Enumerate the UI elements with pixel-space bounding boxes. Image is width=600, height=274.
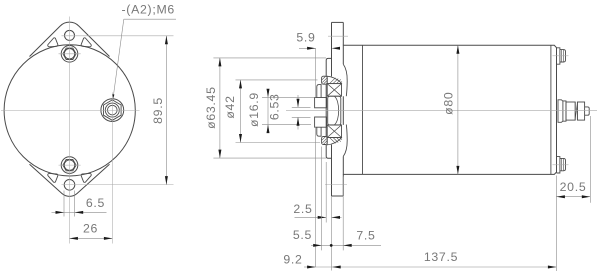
svg-text:9.2: 9.2 [283, 253, 302, 267]
motor body outline side view [343, 45, 556, 174]
dimension 89.5 top arrow [165, 36, 168, 45]
o16.9 extension ticks [262, 96, 314, 98]
top through-bolt inner circle [64, 49, 74, 59]
bottom bolt horizontal centerline tick [59, 164, 81, 166]
dimension 6.5 line and tails [52, 211, 65, 213]
bottom ear mounting hole [64, 180, 75, 191]
bearing cover top [317, 85, 322, 98]
dimension o42 bottom arrow [239, 134, 242, 143]
o63.45 extension lines [213, 57, 326, 59]
dimension o80 top arrow [456, 45, 459, 54]
dimension o80 line [457, 45, 459, 174]
svg-text:89.5: 89.5 [151, 97, 165, 124]
shared endpoint dot 5.5/7.5 [330, 244, 333, 247]
bottom ear left teardrop cutout [48, 173, 58, 182]
dimension 7.5 right arrow [343, 244, 352, 247]
svg-text:2.5: 2.5 [293, 202, 312, 216]
dimension 5.5/7.5 line [311, 244, 322, 246]
spring washer hatched wedge top [327, 76, 341, 83]
dimension 6.5 extension lines [63, 191, 65, 217]
flange bottom ear outline [30, 164, 110, 196]
svg-text:ø42: ø42 [223, 95, 237, 118]
leader arrowhead [113, 94, 115, 98]
svg-text:6.53: 6.53 [268, 93, 282, 120]
hub between bearings [328, 96, 341, 125]
body end cap joint line [550, 45, 552, 174]
dimension 20.5 line [556, 196, 590, 198]
terminal A2 inner circle [108, 105, 118, 115]
top through-bolt outer circle [61, 46, 78, 63]
dimension o42 line [240, 80, 242, 143]
leader underline for label [124, 18, 176, 20]
bottom stud centerline [553, 164, 569, 166]
spring washer hatched wedge bottom [327, 138, 341, 145]
dimension o63.45 bottom arrow [218, 150, 221, 159]
svg-text:7.5: 7.5 [356, 229, 375, 243]
o42 extension lines [236, 79, 318, 81]
flange bottom ear side profile [332, 195, 344, 197]
ear hole centerline tick top [328, 35, 348, 37]
flange right face line lower [331, 145, 333, 196]
top stud knurl lines [562, 50, 564, 62]
bottom stud cap [560, 158, 566, 170]
terminal A2 hex nut [104, 100, 122, 120]
terminal A2 middle circle [105, 103, 119, 117]
top bearing X diagonals [327, 84, 341, 97]
front view vertical centerline [69, 17, 71, 244]
flange top ear outline [30, 22, 110, 56]
bottom stud knurl lines [562, 158, 564, 170]
dimension 6.5 left arrow [56, 211, 65, 214]
coupling dome curve [335, 96, 339, 124]
dimension 137.5 left arrow [332, 266, 341, 269]
middle terminal nut 1 [566, 102, 575, 120]
dimension 2.5 left arrow [318, 216, 327, 219]
top stud base [557, 48, 560, 64]
middle terminal stud end [585, 107, 590, 115]
bottom hole centerline / extension for 89.5 [62, 184, 174, 186]
6.53 extension ticks [292, 106, 311, 108]
bottom through-bolt outer circle [61, 157, 78, 174]
terminal A2 vertical centerline / extension for 26 [111, 93, 113, 244]
top stud cap [560, 50, 566, 62]
extension line x=331.5 below flange [331, 196, 333, 271]
svg-text:6.5: 6.5 [86, 196, 105, 210]
middle terminal nut 2 [577, 102, 584, 120]
extension line end cap face x=556.4 [555, 176, 557, 272]
top ear right teardrop cutout [81, 38, 91, 47]
dimension 6.5 right arrow [75, 211, 84, 214]
top bolt horizontal centerline tick [59, 53, 81, 55]
top hole centerline / extension for 89.5 [62, 35, 174, 37]
dimension o16.9 top arrow and tail [267, 89, 269, 131]
terminal A2 outer circle [101, 99, 124, 122]
svg-text:137.5: 137.5 [424, 250, 458, 264]
ear hole centerline tick bottom [325, 184, 347, 186]
svg-text:5.9: 5.9 [296, 31, 315, 45]
dimension 5.9 right arrow [332, 47, 341, 50]
front view horizontal centerline [1, 109, 140, 111]
svg-text:ø16.9: ø16.9 [247, 92, 261, 127]
bottom stud base [557, 157, 560, 173]
dimension 2.5 right arrow [332, 216, 341, 219]
top ear left teardrop cutout [48, 38, 58, 47]
flange top ear side profile [332, 21, 344, 23]
svg-text:20.5: 20.5 [560, 180, 587, 194]
dimension 26 right arrow [104, 237, 113, 240]
leader line to terminal [113, 19, 124, 96]
svg-text:5.5: 5.5 [293, 228, 312, 242]
flange section hatched block bottom [322, 137, 328, 145]
dimension 89.5 bottom arrow [165, 176, 168, 185]
dimension 137.5 right arrow [548, 266, 557, 269]
extension line x=315.6 (tooth face) [315, 48, 317, 97]
dimension 89.5 line [165, 36, 167, 185]
coupling top tooth [315, 98, 327, 108]
dimension 6.53 top arrow and tail [297, 95, 299, 107]
dimension 5.9 left arrow [307, 47, 316, 50]
bottom bearing X diagonals [327, 125, 341, 138]
svg-text:26: 26 [83, 222, 98, 236]
bottom through-bolt hex [63, 159, 76, 170]
extension line flange left face x=326.2 [325, 162, 327, 223]
bottom bearing section square [327, 125, 341, 138]
dimension 5.9 line left part [299, 47, 316, 49]
end bell dome curve top [343, 64, 347, 96]
flange plate left face [326, 58, 331, 158]
extension line x=321.7 [321, 147, 323, 251]
dimension 9.2/137.5 line [304, 266, 316, 268]
dimension 5.5 left arrow [313, 244, 322, 247]
svg-text:-(A2);M6: -(A2);M6 [122, 3, 175, 17]
middle terminal step [563, 101, 566, 121]
dimension o42 top arrow [239, 80, 242, 89]
dimension o63.45 line [219, 58, 221, 158]
bottom ear right teardrop cutout [81, 173, 91, 182]
dimension 2.5 line [295, 216, 327, 218]
bearing cover bottom [317, 127, 322, 136]
end bell dome curve bottom [343, 125, 347, 157]
flange section hatched block top [322, 76, 328, 84]
middle terminal washer lines [575, 102, 577, 120]
top stud centerline [553, 55, 569, 57]
motor body circle front view [4, 45, 135, 176]
middle terminal base collar [558, 100, 563, 123]
dimension 26 line [69, 237, 112, 239]
side view main axis centerline [286, 109, 597, 111]
dimension 20.5 left arrow [556, 195, 565, 198]
flange right face line upper [331, 22, 333, 76]
dimension o80 bottom arrow [456, 166, 459, 175]
extension line x=343.2 below body [342, 177, 344, 251]
coupling bottom tooth [315, 117, 327, 127]
svg-text:ø63.45: ø63.45 [204, 86, 218, 128]
dimension o16.9 bottom arrow and tail [267, 125, 270, 134]
top through-bolt hex [63, 48, 76, 59]
dimension 6.53 bottom arrow and tail [297, 117, 299, 129]
top ear mounting hole [65, 30, 75, 40]
end bell to shell joint line [362, 45, 364, 174]
extension line terminal tip x=590.3 [589, 116, 591, 203]
dimension o63.45 top arrow [218, 58, 221, 67]
dimension 26 left arrow [69, 237, 78, 240]
bottom through-bolt inner circle [64, 160, 74, 170]
dimension 9.2 left arrow [307, 266, 316, 269]
svg-text:ø80: ø80 [442, 92, 456, 115]
dimension 20.5 right arrow [582, 195, 591, 198]
top bearing section square [327, 84, 341, 97]
